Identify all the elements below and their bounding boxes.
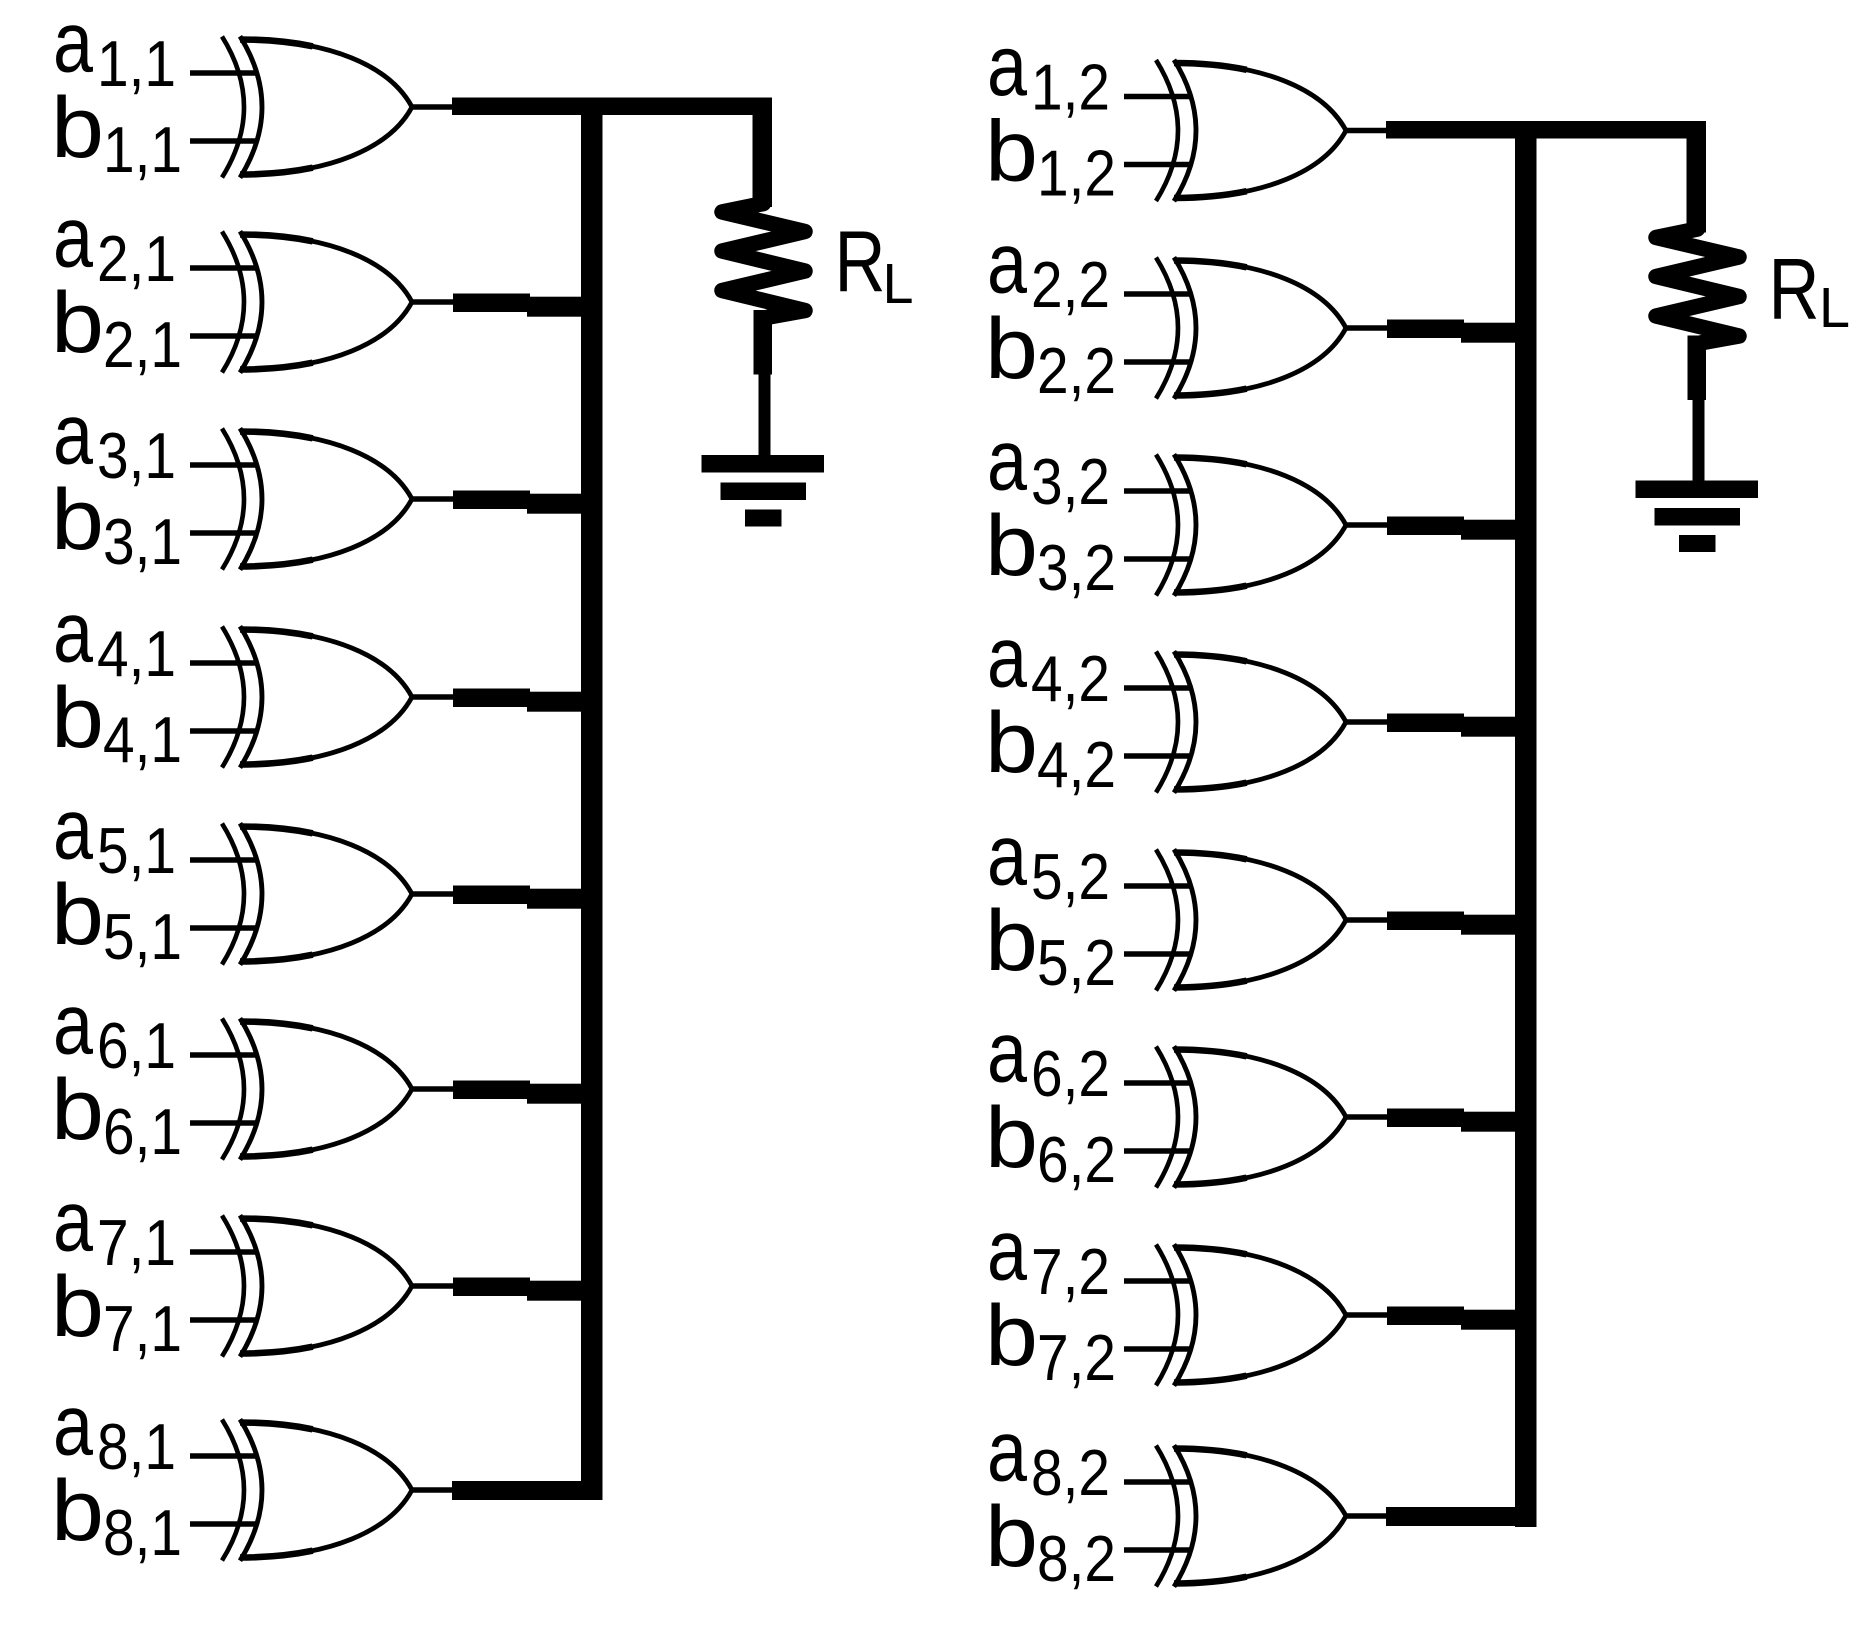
- svg-text:3,1: 3,1: [97, 419, 176, 492]
- XOR gate U62: [1156, 1046, 1346, 1187]
- wire thick junction U61 to bus: [453, 1081, 530, 1100]
- ground left: [702, 455, 825, 473]
- wire thick junction U51 to bus: [453, 886, 530, 905]
- wire input a5,1: [190, 857, 256, 863]
- svg-text:a: a: [53, 585, 93, 681]
- svg-text:L: L: [1819, 276, 1850, 340]
- wire input b8,1: [190, 1521, 256, 1527]
- wire input b8,2: [1124, 1547, 1190, 1553]
- XOR gate U32: [1156, 454, 1346, 595]
- svg-text:8,1: 8,1: [97, 1410, 176, 1483]
- svg-text:a: a: [53, 1378, 93, 1474]
- wire thick junction U42 to bus: [1387, 714, 1464, 733]
- svg-text:5,1: 5,1: [103, 900, 182, 973]
- svg-text:a: a: [987, 216, 1027, 312]
- svg-text:a: a: [53, 782, 93, 878]
- XOR gate U51: [222, 823, 412, 964]
- wire input a4,1: [190, 660, 256, 666]
- svg-text:8,2: 8,2: [1031, 1436, 1110, 1509]
- svg-text:1,2: 1,2: [1037, 137, 1116, 210]
- wire input b7,1: [190, 1317, 256, 1323]
- svg-text:a: a: [987, 413, 1027, 509]
- wire input a3,1: [190, 462, 256, 468]
- svg-text:2,1: 2,1: [97, 222, 176, 295]
- wire vertical bus right: [1515, 123, 1537, 1527]
- svg-text:3,2: 3,2: [1031, 445, 1110, 518]
- wire thick junction U22 to bus: [1387, 320, 1464, 339]
- wire thick junction U31 to bus: [453, 491, 530, 510]
- wire thick junction U71 to bus: [453, 1278, 530, 1297]
- svg-text:b: b: [51, 1463, 104, 1559]
- svg-text:7,2: 7,2: [1031, 1235, 1110, 1308]
- svg-text:b: b: [985, 498, 1038, 594]
- svg-text:a: a: [53, 387, 93, 483]
- wire output of U11: [412, 104, 454, 110]
- wire input a5,2: [1124, 883, 1190, 889]
- svg-text:3,1: 3,1: [103, 505, 182, 578]
- svg-text:a: a: [987, 18, 1027, 114]
- XOR gate U11: [222, 36, 412, 177]
- XOR gate U52: [1156, 849, 1346, 990]
- wire output of U42: [1346, 719, 1388, 725]
- XOR gate U22: [1156, 257, 1346, 398]
- svg-text:a: a: [987, 808, 1027, 904]
- svg-text:a: a: [53, 977, 93, 1073]
- svg-text:7,1: 7,1: [103, 1292, 182, 1365]
- svg-text:b: b: [985, 893, 1038, 989]
- svg-text:b: b: [985, 1090, 1038, 1186]
- svg-text:6,2: 6,2: [1037, 1123, 1116, 1196]
- wire thick net U11 output to bus and R_L: [452, 98, 772, 116]
- XOR gate U41: [222, 626, 412, 767]
- XOR gate U21: [222, 231, 412, 372]
- svg-text:2,1: 2,1: [103, 308, 182, 381]
- wire thick junction U81 to bus: [452, 1481, 603, 1500]
- wire input b1,1: [190, 138, 256, 144]
- svg-text:b: b: [985, 301, 1038, 397]
- svg-text:R: R: [835, 214, 886, 310]
- resistor R_L left: [722, 204, 805, 319]
- svg-text:8,1: 8,1: [103, 1496, 182, 1569]
- svg-text:a: a: [53, 0, 93, 91]
- wire input a3,2: [1124, 488, 1190, 494]
- svg-text:a: a: [53, 190, 93, 286]
- wire thick junction U82 to bus: [1386, 1507, 1537, 1526]
- wire input b4,2: [1124, 753, 1190, 759]
- svg-text:a: a: [987, 1203, 1027, 1299]
- wire input b7,2: [1124, 1346, 1190, 1352]
- svg-text:8,2: 8,2: [1037, 1522, 1116, 1595]
- wire thick junction U41 to bus: [453, 689, 530, 708]
- wire output of U61: [412, 1086, 454, 1092]
- svg-text:b: b: [51, 275, 104, 371]
- svg-text:1,2: 1,2: [1031, 51, 1110, 124]
- svg-text:b: b: [51, 472, 104, 568]
- XOR gate U42: [1156, 651, 1346, 792]
- wire input b4,1: [190, 728, 256, 734]
- wire output of U72: [1346, 1312, 1388, 1318]
- wire output of U81: [412, 1487, 454, 1493]
- wire input a6,1: [190, 1052, 256, 1058]
- svg-text:6,1: 6,1: [97, 1009, 176, 1082]
- svg-text:4,2: 4,2: [1037, 728, 1116, 801]
- wire input b1,2: [1124, 162, 1190, 168]
- wire R_L top lead right: [1687, 133, 1707, 233]
- wire R_L bottom stub left: [754, 310, 773, 375]
- svg-text:2,2: 2,2: [1037, 334, 1116, 407]
- svg-text:b: b: [985, 104, 1038, 200]
- wire output of U52: [1346, 917, 1388, 923]
- wire R_L top lead left: [753, 107, 773, 207]
- svg-text:a: a: [987, 1404, 1027, 1500]
- svg-text:6,1: 6,1: [103, 1095, 182, 1168]
- wire output of U62: [1346, 1114, 1388, 1120]
- svg-text:7,1: 7,1: [97, 1206, 176, 1279]
- resistor R_L right: [1656, 229, 1739, 344]
- svg-text:b: b: [985, 1288, 1038, 1384]
- svg-text:1,1: 1,1: [97, 27, 176, 100]
- XOR gate U81: [222, 1419, 412, 1560]
- svg-text:b: b: [51, 1259, 104, 1355]
- svg-text:b: b: [51, 80, 104, 176]
- wire input a1,2: [1124, 94, 1190, 100]
- svg-text:R: R: [1769, 242, 1820, 338]
- wire input b6,2: [1124, 1148, 1190, 1154]
- wire output of U82: [1346, 1513, 1388, 1519]
- XOR gate U71: [222, 1215, 412, 1356]
- svg-text:b: b: [985, 1489, 1038, 1585]
- wire input b5,1: [190, 925, 256, 931]
- wire input a7,2: [1124, 1278, 1190, 1284]
- wire thick net U12 output to bus and R_L: [1386, 121, 1706, 139]
- XOR gate U31: [222, 428, 412, 569]
- XOR gate U61: [222, 1018, 412, 1159]
- wire thick junction U72 to bus: [1387, 1307, 1464, 1326]
- wire input a7,1: [190, 1249, 256, 1255]
- svg-text:L: L: [883, 252, 914, 316]
- svg-text:7,2: 7,2: [1037, 1321, 1116, 1394]
- svg-text:1,1: 1,1: [103, 113, 182, 186]
- wire R_L to ground left: [759, 374, 771, 456]
- XOR gate U12: [1156, 60, 1346, 201]
- wire output of U12: [1346, 128, 1388, 134]
- wire input a8,1: [190, 1453, 256, 1459]
- wire output of U71: [412, 1283, 454, 1289]
- XOR gate U72: [1156, 1244, 1346, 1385]
- wire input a1,1: [190, 70, 256, 76]
- svg-text:5,2: 5,2: [1031, 840, 1110, 913]
- wire vertical bus left: [581, 98, 603, 1500]
- wire thick junction U21 to bus: [453, 294, 530, 313]
- svg-text:a: a: [53, 1174, 93, 1270]
- wire input b2,2: [1124, 359, 1190, 365]
- XOR gate U82: [1156, 1445, 1346, 1586]
- wire R_L to ground right: [1693, 400, 1705, 482]
- ground right: [1636, 481, 1759, 499]
- wire input b3,2: [1124, 556, 1190, 562]
- wire output of U21: [412, 299, 454, 305]
- svg-text:5,1: 5,1: [97, 814, 176, 887]
- wire output of U22: [1346, 325, 1388, 331]
- wire thick junction U62 to bus: [1387, 1109, 1464, 1128]
- svg-text:5,2: 5,2: [1037, 926, 1116, 999]
- wire R_L bottom stub right: [1688, 336, 1707, 401]
- svg-text:b: b: [51, 670, 104, 766]
- svg-text:a: a: [987, 1005, 1027, 1101]
- svg-text:3,2: 3,2: [1037, 531, 1116, 604]
- svg-text:2,2: 2,2: [1031, 248, 1110, 321]
- svg-text:6,2: 6,2: [1031, 1037, 1110, 1110]
- wire thick junction U52 to bus: [1387, 912, 1464, 931]
- svg-text:4,1: 4,1: [97, 617, 176, 690]
- wire output of U31: [412, 496, 454, 502]
- wire input b5,2: [1124, 951, 1190, 957]
- svg-text:b: b: [51, 1062, 104, 1158]
- wire output of U32: [1346, 522, 1388, 528]
- wire input b2,1: [190, 333, 256, 339]
- wire input a8,2: [1124, 1479, 1190, 1485]
- wire input a6,2: [1124, 1080, 1190, 1086]
- wire output of U41: [412, 694, 454, 700]
- wire input b3,1: [190, 530, 256, 536]
- svg-text:a: a: [987, 610, 1027, 706]
- wire input a2,2: [1124, 291, 1190, 297]
- wire thick junction U32 to bus: [1387, 517, 1464, 536]
- wire input a2,1: [190, 265, 256, 271]
- svg-text:b: b: [51, 867, 104, 963]
- svg-text:4,2: 4,2: [1031, 642, 1110, 715]
- svg-text:b: b: [985, 695, 1038, 791]
- svg-text:4,1: 4,1: [103, 703, 182, 776]
- wire output of U51: [412, 891, 454, 897]
- wire input b6,1: [190, 1120, 256, 1126]
- wire input a4,2: [1124, 685, 1190, 691]
